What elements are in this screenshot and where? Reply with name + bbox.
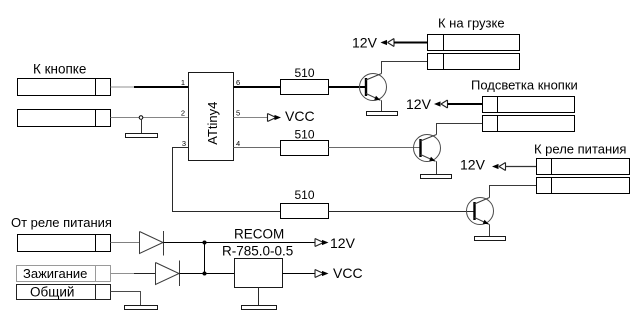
- svg-text:510: 510: [294, 188, 314, 202]
- svg-text:К реле питания: К реле питания: [534, 142, 626, 157]
- wire 12V to X3-1: [448, 103, 483, 105]
- svg-text:12V: 12V: [406, 96, 432, 112]
- junction node 12V: [203, 241, 207, 245]
- connector X6 (Зажигание): [17, 266, 111, 282]
- ground G4 (Q3): [475, 237, 506, 241]
- transistor Q3: [467, 198, 494, 225]
- connector X3 pad 1 (Подсветка top): [483, 97, 575, 113]
- wire 12V to X2-1: [394, 42, 428, 44]
- wire R3 to Q3 base: [329, 211, 475, 213]
- op-amp/chip U1 ATtiny4: [189, 73, 234, 161]
- pin stub X6: [111, 273, 135, 275]
- connector X4 pad 1 (К реле питания top): [537, 159, 630, 175]
- svg-text:3: 3: [182, 139, 186, 148]
- connector X3 pad 2 (Подсветка bottom): [483, 116, 575, 132]
- svg-text:6: 6: [236, 78, 240, 87]
- connector X4 pad 2 (К реле питания bottom): [537, 178, 630, 194]
- svg-text:R-785.0-0.5: R-785.0-0.5: [222, 244, 293, 259]
- svg-text:К на грузке: К на грузке: [438, 16, 505, 31]
- connector X2 pad 2 (К на грузке bottom): [428, 54, 520, 70]
- resistor R2 510: [281, 128, 329, 156]
- svg-text:RECOM: RECOM: [234, 227, 284, 242]
- wire R1 to Q1 base: [329, 86, 367, 88]
- wire junction link: [204, 243, 206, 274]
- resistor R3 510: [281, 188, 329, 219]
- wire Общий to ground: [111, 292, 141, 306]
- supply arrow 12V (top, left-pointing): [381, 39, 395, 47]
- ground G6 (regulator): [242, 306, 277, 310]
- wire pin3 down-left: [173, 148, 282, 212]
- connector X5 (От реле питания): [18, 235, 111, 252]
- svg-text:От реле питания: От реле питания: [11, 215, 112, 230]
- svg-text:ATtiny4: ATtiny4: [205, 102, 220, 145]
- regulator U2 RECOM R-785.0-0.5: [235, 259, 283, 288]
- diode D2: [156, 261, 180, 287]
- ground G5 (Общий): [125, 306, 158, 310]
- wire D2 to regulator: [180, 273, 235, 275]
- svg-text:510: 510: [294, 66, 314, 80]
- wire pin4 to R2: [234, 147, 282, 149]
- transistor Q1: [360, 74, 387, 101]
- wire regulator out: [283, 273, 316, 275]
- wire pin5 to VCC arrow: [234, 117, 268, 119]
- wire pin6 to R1: [234, 86, 282, 88]
- junction node VCC in: [203, 272, 207, 276]
- svg-text:12V: 12V: [352, 35, 378, 51]
- pin stub X1-1: [111, 86, 135, 88]
- ground G2 (Q1): [367, 112, 398, 116]
- connector X2 pad 1 (К на грузке top): [428, 35, 520, 51]
- wire net pin2: [111, 117, 189, 119]
- wire Q2 emitter to ground: [436, 161, 438, 174]
- ground G1: [126, 134, 158, 138]
- wire net pin1: [134, 86, 188, 88]
- junction node pin2/ground: [139, 116, 143, 120]
- wire R2 to Q2 base: [329, 147, 421, 149]
- svg-text:Зажигание: Зажигание: [23, 266, 87, 281]
- wire Q3 emitter to ground: [489, 224, 491, 236]
- supply arrow VCC (bottom out): [315, 270, 329, 278]
- svg-text:VCC: VCC: [285, 108, 315, 124]
- wire D1 to 12V arrow: [164, 242, 316, 244]
- connector X1 pad 2 (К кнопке bottom): [18, 110, 111, 127]
- supply arrow 12V (bottom out): [315, 239, 329, 247]
- resistor R1 510: [281, 66, 329, 95]
- svg-text:Общий: Общий: [30, 285, 74, 300]
- diode D1: [140, 231, 164, 256]
- svg-text:510: 510: [294, 128, 314, 142]
- svg-text:12V: 12V: [460, 157, 486, 173]
- wire regulator ground: [258, 288, 260, 306]
- transistor Q2: [414, 135, 441, 162]
- supply arrow 12V (middle, left-pointing): [434, 100, 448, 108]
- svg-text:VCC: VCC: [333, 265, 363, 281]
- svg-text:5: 5: [236, 109, 240, 118]
- wire Q3 collector to X4-2: [490, 186, 537, 198]
- svg-text:12V: 12V: [330, 235, 356, 251]
- svg-text:Подсветка кнопки: Подсветка кнопки: [471, 78, 578, 93]
- wire Q1 emitter to ground: [381, 100, 383, 111]
- supply arrow 12V (lower, left-pointing): [492, 163, 506, 171]
- pin stub X5: [111, 242, 140, 244]
- wire ground tap: [141, 119, 143, 134]
- wire Q2 collector to X3-2: [437, 124, 483, 135]
- supply arrow VCC (pin5): [268, 114, 282, 122]
- svg-text:4: 4: [236, 139, 240, 148]
- wire 12V to X4-1: [506, 166, 537, 168]
- svg-text:К кнопке: К кнопке: [33, 62, 86, 77]
- connector X1 pad 1 (К кнопке top): [18, 79, 111, 96]
- wire Q1 collector to X2-2: [382, 62, 428, 74]
- svg-text:2: 2: [181, 109, 185, 118]
- ground G3 (Q2): [421, 175, 452, 179]
- connector X7 (Общий): [17, 285, 111, 300]
- svg-text:1: 1: [181, 78, 185, 87]
